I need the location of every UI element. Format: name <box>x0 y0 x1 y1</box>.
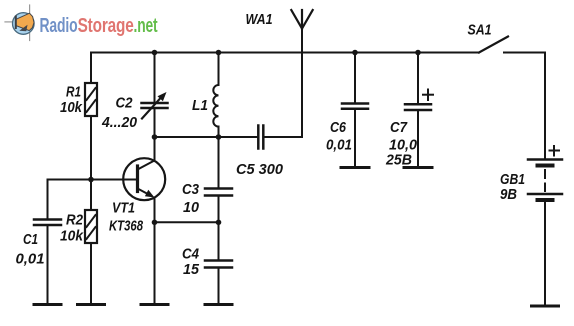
wire C4 to ground <box>218 269 220 305</box>
wire emitter to C3 C4 <box>155 221 219 223</box>
wire collector <box>154 137 156 161</box>
node base junction <box>88 177 94 183</box>
wire C6 to ground <box>354 110 356 168</box>
node C7 top <box>415 50 421 56</box>
wire switch to battery <box>544 53 546 159</box>
wire top bus <box>91 52 479 54</box>
wire C1 top <box>47 180 49 219</box>
ground C7 <box>404 166 432 169</box>
capacitor C2 variable <box>142 92 168 119</box>
capacitor C1 <box>34 220 61 226</box>
svg-text:Storage: Storage <box>78 15 134 37</box>
wire C7 to ground <box>417 112 419 168</box>
svg-text:R2: R2 <box>66 213 83 229</box>
svg-text:10k: 10k <box>60 229 84 245</box>
transistor VT1 <box>123 158 165 200</box>
svg-text:C4: C4 <box>182 247 199 263</box>
svg-text:0,01: 0,01 <box>326 138 352 154</box>
capacitor C5 <box>258 126 263 149</box>
wire L1 top <box>218 53 220 86</box>
svg-text:C1: C1 <box>23 232 38 248</box>
capacitor C6 <box>342 104 368 109</box>
resistor R1 <box>85 83 97 116</box>
wire C5 to antenna <box>265 136 303 138</box>
svg-text:Radio: Radio <box>40 15 78 37</box>
svg-text:0,01: 0,01 <box>16 252 45 268</box>
node emitter junction <box>152 220 158 226</box>
wire battery to ground <box>544 202 546 306</box>
svg-text:C5 300: C5 300 <box>236 162 283 178</box>
switch SA1 <box>479 37 545 53</box>
wire C4 top <box>218 222 220 259</box>
svg-text:KT368: KT368 <box>109 219 144 235</box>
ground GB1 <box>532 305 559 308</box>
wire C2 bottom <box>154 110 156 138</box>
ground C4 <box>205 303 232 306</box>
wire C6 top <box>354 53 356 103</box>
svg-text:10: 10 <box>183 200 199 216</box>
ground emitter <box>141 303 168 306</box>
node C6 top <box>352 50 358 56</box>
capacitor C3 <box>205 189 232 196</box>
wire C3 top <box>218 137 220 187</box>
logo icon <box>5 5 34 41</box>
battery GB1 <box>528 146 562 200</box>
resistor R2 <box>85 210 97 243</box>
wire C7 top <box>417 53 419 103</box>
svg-text:9B: 9B <box>500 187 517 203</box>
wire C3 bottom <box>218 197 220 222</box>
inductor L1 <box>213 85 218 127</box>
svg-text:SA1: SA1 <box>468 23 492 39</box>
node C2 bottom <box>152 134 158 140</box>
capacitor C4 <box>205 261 232 268</box>
wire L1 bottom <box>218 127 220 137</box>
capacitor C7 polarized <box>405 90 433 111</box>
wire R2 to ground <box>90 243 92 305</box>
svg-text:VT1: VT1 <box>112 201 135 217</box>
svg-text:10,0: 10,0 <box>389 138 417 154</box>
ground C6 <box>341 166 369 169</box>
node L1 bottom <box>216 134 222 140</box>
wire C1 to ground <box>47 227 49 305</box>
node C2 top <box>152 50 158 56</box>
wire base line <box>48 179 137 181</box>
svg-text:WA1: WA1 <box>246 12 273 28</box>
node C3 C4 junction <box>216 220 222 226</box>
svg-text:C6: C6 <box>330 120 347 136</box>
ground R2 <box>78 303 105 306</box>
wire R1 top <box>90 53 92 84</box>
svg-text:C3: C3 <box>182 182 199 198</box>
svg-text:L1: L1 <box>192 98 208 114</box>
svg-text:.net: .net <box>134 15 158 37</box>
svg-text:15: 15 <box>183 262 200 278</box>
svg-text:C2: C2 <box>116 96 133 112</box>
wire antenna drop <box>301 29 303 138</box>
wire R1 bottom to R2 <box>90 116 92 210</box>
wire emitter to ground <box>154 198 156 305</box>
ground C1 <box>34 303 61 306</box>
antenna WA1 <box>291 10 312 29</box>
svg-text:R1: R1 <box>66 85 81 101</box>
wire C2 top <box>154 53 156 102</box>
logo text RadioStorage.net <box>40 15 158 37</box>
wire tank bottom <box>155 136 257 138</box>
svg-text:GB1: GB1 <box>500 172 525 188</box>
svg-text:10k: 10k <box>60 100 83 116</box>
svg-text:C7: C7 <box>390 120 408 136</box>
node L1 top <box>216 50 222 56</box>
svg-text:4...20: 4...20 <box>101 115 137 131</box>
